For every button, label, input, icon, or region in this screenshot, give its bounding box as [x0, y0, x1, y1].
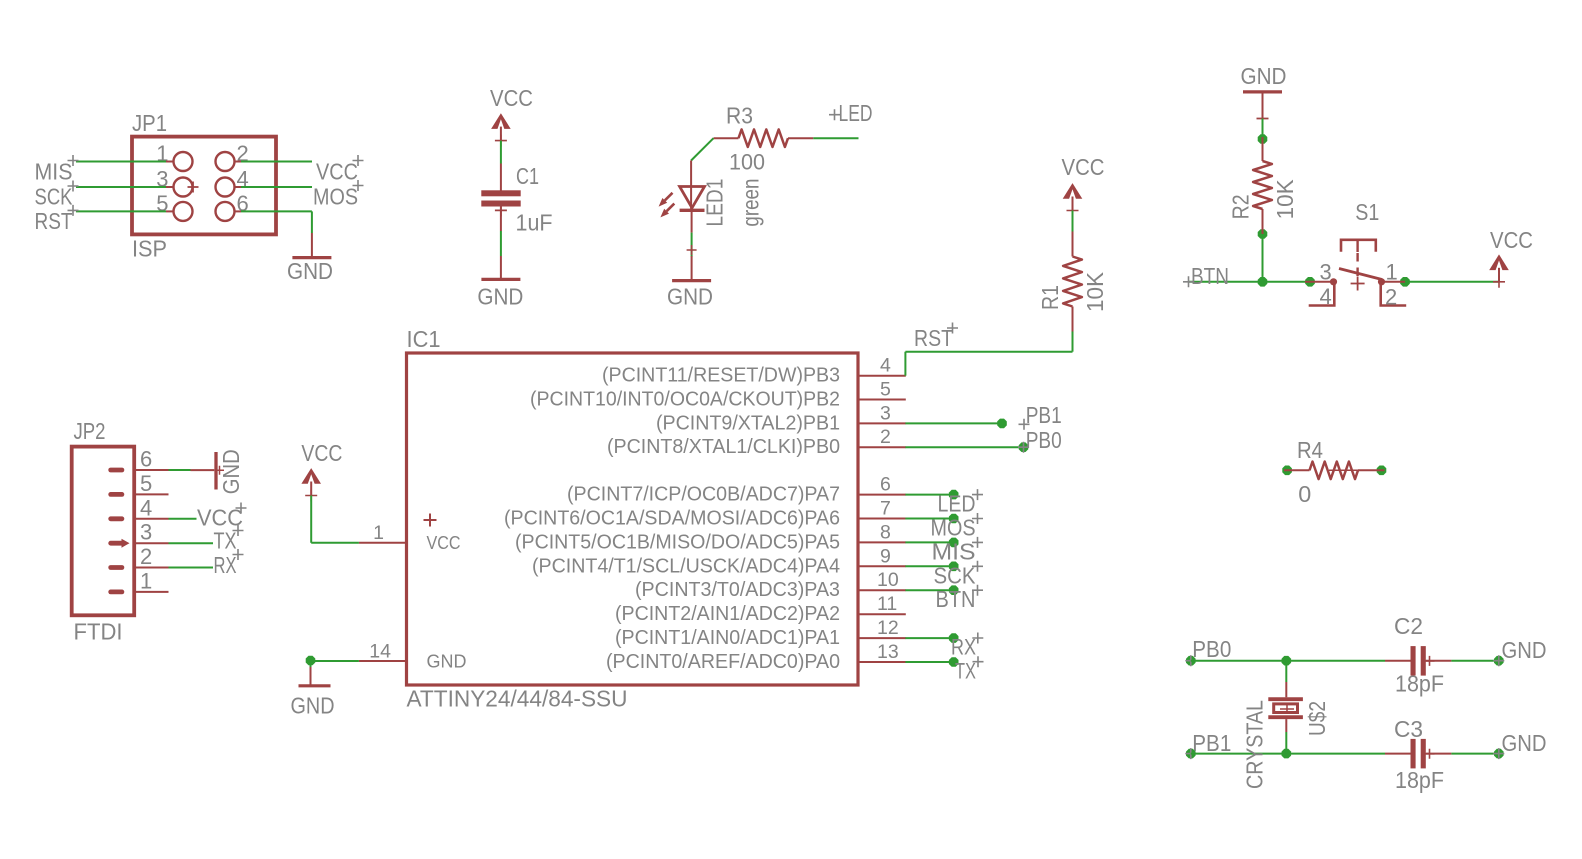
svg-text:GND: GND: [218, 449, 244, 494]
resistor R2: [1262, 137, 1264, 161]
crystal U$2: [1285, 682, 1287, 697]
ic IC1 origin cross: [424, 514, 437, 527]
ic IC1 pin 4 stub: [858, 375, 906, 377]
svg-text:SCK: SCK: [934, 562, 977, 588]
svg-text:1: 1: [140, 568, 152, 593]
svg-text:RX: RX: [951, 635, 976, 660]
svg-text:R2: R2: [1227, 194, 1253, 219]
svg-text:ISP: ISP: [132, 236, 167, 262]
svg-text:JP2: JP2: [74, 418, 106, 444]
connector JP1 pad circle pin 1: [174, 152, 193, 171]
connector JP2 pin 1 stub: [134, 591, 168, 593]
wire S1 pin1 to VCC: [1405, 281, 1499, 283]
JP1 part origin cross: [188, 182, 199, 193]
svg-text:MIS: MIS: [35, 158, 73, 184]
ic IC1 pin 13 stub: [858, 661, 906, 663]
junction dot below R2 under pin: [1258, 229, 1268, 239]
wire IC1 to net LED: [905, 494, 953, 496]
switch S1 pin 4 bracket: [1309, 284, 1335, 306]
svg-text:5: 5: [140, 471, 152, 496]
wire C3 to GND label: [1451, 753, 1498, 755]
svg-text:LED: LED: [938, 491, 976, 517]
wire JP2 pin2 to net RX: [169, 567, 214, 569]
wire JP2 pin4 to net VCC: [169, 518, 197, 520]
wire IC1 pin13 to net TX: [905, 661, 953, 663]
net label BTN wire: [1189, 281, 1263, 283]
wire R3 to LED1 anode: [691, 138, 713, 160]
ground symbol GND at JP2 pin6: [191, 469, 215, 471]
svg-text:R1: R1: [1037, 285, 1063, 310]
svg-text:6: 6: [140, 447, 152, 472]
wire net RST to JP1 pin5: [76, 210, 166, 212]
svg-text:(PCINT3/T0/ADC3)PA3: (PCINT3/T0/ADC3)PA3: [635, 579, 840, 601]
svg-text:2: 2: [880, 426, 891, 448]
wire IC1 pin4 to RST net: [904, 352, 906, 376]
connector JP2 body: [72, 447, 135, 616]
resistor R1: [1072, 232, 1074, 257]
junction dot R4 right: [1377, 466, 1387, 476]
svg-text:MOS: MOS: [313, 183, 358, 209]
junction dot net TX: [949, 657, 959, 667]
svg-text:PB1: PB1: [1192, 730, 1231, 756]
wire R3 to net LED: [813, 137, 858, 139]
svg-text:1: 1: [1386, 260, 1398, 285]
svg-text:GND: GND: [287, 258, 333, 284]
svg-text:VCC: VCC: [301, 440, 342, 466]
svg-text:5: 5: [880, 379, 891, 401]
svg-text:10K: 10K: [1272, 179, 1298, 220]
wire VCC to IC1 pin1: [310, 496, 312, 543]
connector JP2 pin 3 stub: [134, 542, 168, 544]
ic IC1 pin 10 stub: [858, 589, 906, 591]
junction dot at S1 pin1: [1400, 277, 1410, 287]
net label BTN: [1183, 276, 1194, 287]
svg-text:R4: R4: [1297, 437, 1323, 463]
resistor R3: [714, 137, 739, 139]
supply symbol VCC right of S1: [1489, 254, 1509, 270]
svg-text:GND: GND: [427, 651, 467, 672]
svg-text:LED1: LED1: [701, 179, 727, 227]
svg-text:(PCINT11/RESET/DW)PB3: (PCINT11/RESET/DW)PB3: [602, 365, 840, 387]
wire IC1 to net SCK: [905, 565, 953, 567]
svg-text:(PCINT0/AREF/ADC0)PA0: (PCINT0/AREF/ADC0)PA0: [606, 651, 840, 673]
svg-text:10K: 10K: [1082, 271, 1108, 312]
switch S1 origin cross: [1351, 277, 1365, 291]
wire PB0 to crystal U$2: [1285, 661, 1287, 682]
wire R2 to BTN net: [1262, 234, 1264, 282]
svg-text:(PCINT10/INT0/OC0A/CKOUT)PB2: (PCINT10/INT0/OC0A/CKOUT)PB2: [530, 389, 840, 411]
svg-text:2: 2: [1385, 285, 1397, 310]
svg-text:2: 2: [140, 544, 152, 569]
svg-text:7: 7: [880, 498, 891, 520]
supply symbol VCC above C1: [491, 113, 511, 129]
svg-text:C2: C2: [1394, 613, 1423, 639]
wire JP2 pin6 to ground: [169, 469, 191, 471]
svg-text:VCC: VCC: [427, 532, 461, 553]
ic IC1 pin 2 stub: [858, 446, 906, 448]
connector JP1 pad circle pin 5: [174, 202, 193, 221]
connector JP2 pad pin 5: [108, 492, 124, 497]
ic IC1 pin 9 stub: [858, 565, 906, 567]
svg-text:C1: C1: [516, 163, 539, 189]
wire IC1 to net MOS: [905, 518, 953, 520]
junction dot net LED: [949, 490, 959, 500]
ic IC1 pin 6 stub: [858, 494, 906, 496]
svg-text:MOS: MOS: [931, 515, 976, 541]
svg-text:13: 13: [877, 641, 899, 663]
svg-text:VCC: VCC: [1062, 154, 1105, 180]
svg-text:(PCINT1/AIN0/ADC1)PA1: (PCINT1/AIN0/ADC1)PA1: [615, 627, 840, 649]
junction dot BTN at R2: [1258, 277, 1268, 287]
svg-text:TX: TX: [214, 528, 237, 554]
connector JP2 pad pin 3: [108, 541, 124, 546]
switch S1 lever: [1339, 269, 1382, 280]
wire net PB0 to C2: [1191, 660, 1385, 662]
svg-text:GND: GND: [291, 693, 335, 719]
svg-text:(PCINT7/ICP/OC0B/ADC7)PA7: (PCINT7/ICP/OC0B/ADC7)PA7: [567, 484, 840, 506]
svg-text:1: 1: [373, 522, 384, 544]
wire VCC to C1: [500, 141, 502, 164]
connector JP2 pin 6 stub: [134, 469, 168, 471]
wire IC1 pin2 to net PB0: [905, 446, 1023, 448]
svg-text:(PCINT8/XTAL1/CLKI)PB0: (PCINT8/XTAL1/CLKI)PB0: [607, 436, 840, 458]
wire JP1 pin4 to net MOS: [235, 186, 242, 188]
connector JP2 pad pin 4: [108, 516, 124, 521]
svg-text:(PCINT2/AIN1/ADC2)PA2: (PCINT2/AIN1/ADC2)PA2: [615, 603, 840, 625]
connector JP2 pin 2 stub: [134, 567, 168, 569]
net label PB1 at IC1: [1019, 419, 1030, 430]
wire IC1 to net MIS: [905, 541, 953, 543]
wire IC1 pin12 to net RX: [905, 637, 953, 639]
connector JP1 pad circle pin 2: [216, 152, 235, 171]
switch S1 actuator bracket: [1341, 240, 1376, 252]
svg-text:3: 3: [140, 520, 152, 545]
svg-text:green: green: [738, 179, 764, 227]
connector JP2 pin 5 stub: [134, 493, 168, 495]
junction dot GND right of C3: [1494, 749, 1504, 759]
wire IC1 to net BTN: [905, 589, 953, 591]
ground symbol GND at JP1: [311, 233, 313, 256]
svg-text:GND: GND: [667, 283, 713, 309]
svg-text:SCK: SCK: [35, 183, 74, 209]
wire net SCK to JP1 pin3: [76, 186, 166, 188]
wire LED1 cathode to ground: [691, 233, 693, 257]
svg-text:PB0: PB0: [1192, 636, 1231, 662]
net label LED at R3: [829, 109, 840, 120]
svg-text:4: 4: [880, 355, 891, 377]
svg-text:3: 3: [880, 402, 891, 424]
svg-text:S1: S1: [1355, 199, 1379, 225]
ic IC1 body: [407, 353, 859, 685]
svg-text:(PCINT5/OC1B/MISO/DO/ADC5)PA5: (PCINT5/OC1B/MISO/DO/ADC5)PA5: [515, 531, 840, 553]
svg-text:GND: GND: [1502, 637, 1547, 663]
ic IC1 pin 14 stub: [359, 660, 407, 662]
svg-text:RST: RST: [35, 208, 73, 234]
svg-text:RX: RX: [214, 552, 237, 578]
svg-text:PB0: PB0: [1026, 427, 1062, 453]
junction dot PB0 at crystal: [1282, 656, 1292, 666]
svg-text:ATTINY24/44/84-SSU: ATTINY24/44/84-SSU: [407, 686, 628, 712]
ic IC1 pin 5 stub: [858, 399, 906, 401]
ic IC1 pin 8 stub: [858, 541, 906, 543]
svg-text:9: 9: [880, 545, 891, 567]
wire JP1 pin6 to ground: [235, 210, 242, 212]
svg-text:18pF: 18pF: [1395, 671, 1444, 697]
junction dot net PB1: [997, 419, 1007, 429]
connector JP2 pad pin 1: [108, 590, 124, 595]
svg-text:MIS: MIS: [932, 538, 976, 564]
wire GND to R2: [1262, 119, 1264, 138]
capacitor C2: [1385, 660, 1411, 662]
wire ground to IC1 pin14: [311, 660, 359, 662]
svg-text:(PCINT6/OC1A/SDA/MOSI/ADC6)PA6: (PCINT6/OC1A/SDA/MOSI/ADC6)PA6: [504, 508, 840, 530]
junction dot PB1 at crystal: [1282, 749, 1292, 759]
svg-text:JP1: JP1: [132, 110, 167, 136]
junction dot above R2: [1258, 134, 1268, 144]
junction dot net MOS: [949, 514, 959, 524]
ground symbol GND above R2 flipped: [1243, 90, 1282, 93]
junction at IC1 pin14 ground: [306, 656, 316, 666]
connector JP2 pad pin 6: [108, 468, 124, 473]
wire C1 to ground: [500, 231, 502, 256]
svg-text:LED: LED: [839, 100, 873, 126]
connector JP1 pad circle pin 6: [216, 202, 235, 221]
junction dot net BTN: [949, 585, 959, 595]
svg-text:4: 4: [140, 495, 152, 520]
supply symbol VCC above R1: [1063, 183, 1083, 199]
junction dot net RX: [949, 633, 959, 643]
ic IC1 pin 7 stub: [858, 518, 906, 520]
wire JP2 pin3 to net TX: [169, 542, 214, 544]
connector JP2 pad pin 2: [108, 565, 124, 570]
svg-text:VCC: VCC: [316, 158, 358, 184]
svg-text:GND: GND: [1502, 730, 1547, 756]
capacitor C3: [1385, 753, 1411, 755]
switch S1 pin 2 bracket: [1381, 284, 1407, 306]
svg-text:R3: R3: [726, 103, 753, 129]
svg-text:GND: GND: [1241, 63, 1287, 89]
junction dot at S1 pin3: [1305, 277, 1315, 287]
wire net MIS to JP1 pin1: [76, 161, 166, 163]
ic IC1 pin 3 stub: [858, 422, 906, 424]
wire net PB1 to C3: [1191, 753, 1385, 755]
wire crystal to PB1: [1285, 732, 1287, 754]
junction dot PB0 left end: [1186, 656, 1196, 666]
ic IC1 pin 11 stub: [858, 613, 906, 615]
led LED1 emission arrows: [665, 193, 675, 211]
wire JP1 pin2 to net VCC: [235, 161, 242, 163]
svg-text:18pF: 18pF: [1395, 767, 1444, 793]
svg-text:8: 8: [880, 521, 891, 543]
svg-text:100: 100: [729, 149, 765, 174]
led LED1: [690, 161, 692, 212]
wire VCC to R1: [1072, 211, 1074, 232]
svg-text:VCC: VCC: [1490, 227, 1533, 253]
junction dot PB1 left end: [1186, 749, 1196, 759]
svg-text:12: 12: [877, 617, 899, 639]
supply symbol VCC at IC1 pin1: [301, 468, 321, 484]
connector JP1 body: [132, 137, 276, 235]
svg-text:CRYSTAL: CRYSTAL: [1241, 700, 1267, 789]
resistor R4: [1284, 469, 1310, 471]
svg-text:BTN: BTN: [1191, 263, 1229, 289]
svg-text:10: 10: [877, 569, 899, 591]
junction dot net SCK: [949, 562, 959, 572]
svg-text:4: 4: [1320, 284, 1332, 309]
svg-text:1uF: 1uF: [516, 210, 553, 236]
svg-text:GND: GND: [477, 283, 523, 309]
junction dot R4 left: [1282, 466, 1292, 476]
svg-text:PB1: PB1: [1026, 402, 1062, 428]
capacitor C1: [500, 164, 502, 191]
connector JP2 pin 4 stub: [134, 518, 168, 520]
svg-text:FTDI: FTDI: [74, 619, 123, 645]
junction dot net MIS: [949, 538, 959, 548]
connector JP1 pad circle pin 3: [174, 178, 193, 197]
ground symbol GND below LED1: [691, 256, 693, 279]
wire IC1 pin3 to net PB1: [905, 422, 1002, 424]
svg-text:(PCINT4/T1/SCL/USCK/ADC4)PA4: (PCINT4/T1/SCL/USCK/ADC4)PA4: [532, 555, 840, 577]
ground symbol GND below C1: [500, 256, 502, 278]
wire BTN to S1 pin3: [1263, 281, 1311, 283]
svg-text:C3: C3: [1394, 716, 1423, 742]
svg-text:VCC: VCC: [490, 85, 533, 111]
svg-text:RST: RST: [914, 325, 953, 351]
svg-text:14: 14: [369, 641, 391, 663]
svg-text:IC1: IC1: [407, 326, 441, 352]
svg-text:3: 3: [1320, 260, 1332, 285]
wire C2 to GND label: [1451, 660, 1498, 662]
ic IC1 pin 1 stub: [359, 542, 407, 544]
ground symbol GND at IC1 pin14: [310, 667, 312, 685]
JP2 pin 3 arrow marker: [122, 539, 130, 548]
svg-text:11: 11: [877, 593, 897, 615]
wire R1 to RST net: [1072, 332, 1074, 352]
switch S1 pin 1: [1378, 278, 1385, 285]
svg-text:0: 0: [1298, 481, 1311, 507]
switch S1 pin 3: [1305, 281, 1334, 283]
svg-text:(PCINT9/XTAL2)PB1: (PCINT9/XTAL2)PB1: [656, 412, 840, 434]
ic IC1 pin 12 stub: [858, 637, 906, 639]
junction dot GND right of C2: [1494, 656, 1504, 666]
connector JP1 pad circle pin 4: [216, 178, 235, 197]
svg-text:BTN: BTN: [936, 586, 976, 612]
svg-text:U$2: U$2: [1304, 701, 1330, 736]
svg-text:6: 6: [880, 474, 891, 496]
junction dot net PB0: [1019, 442, 1029, 452]
